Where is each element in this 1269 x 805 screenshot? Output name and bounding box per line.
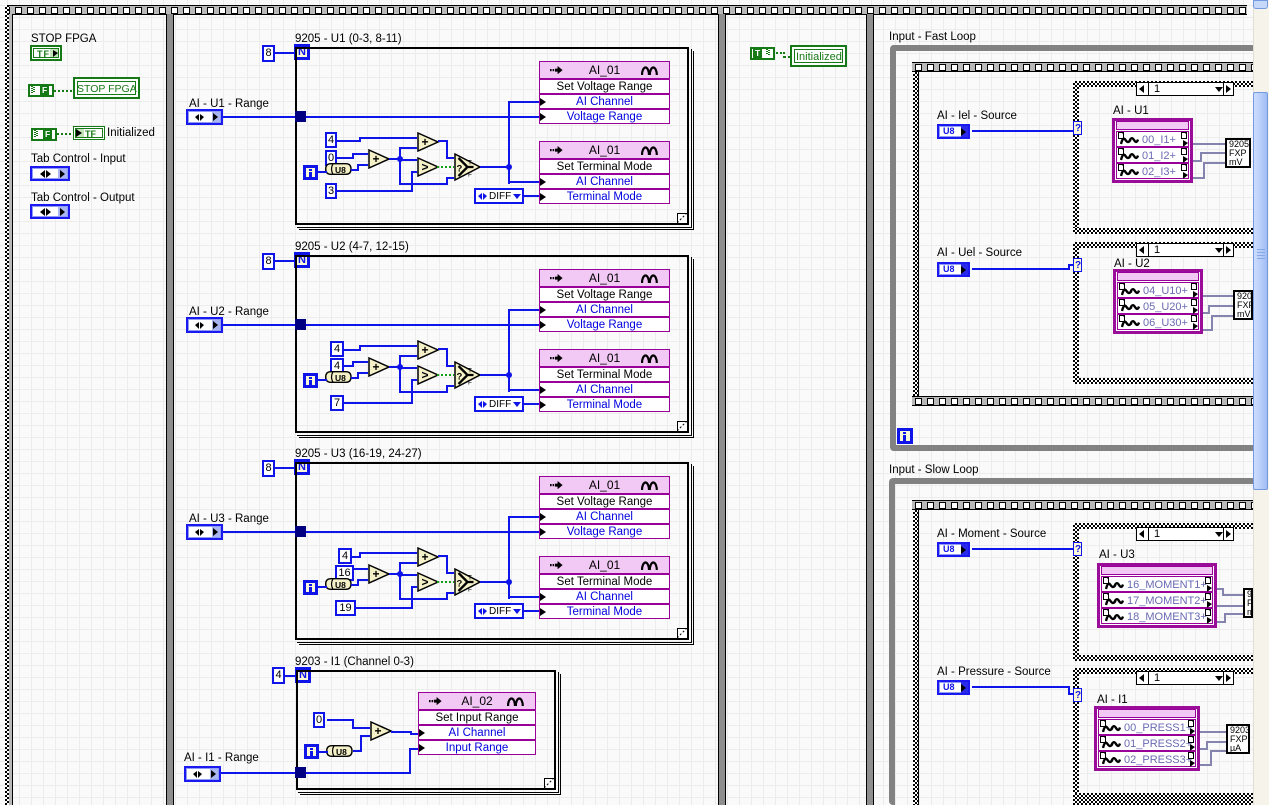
- constant 0: [325, 150, 337, 166]
- flat sequence left border (fast loop): [913, 72, 918, 396]
- wire const 4 to add2: [337, 140, 359, 142]
- add function 1: [368, 357, 391, 377]
- case structure (AI - U3): [1073, 523, 1253, 529]
- wire Moment to case selector: [972, 548, 1073, 550]
- wire junction to select false input: [399, 575, 401, 600]
- node 9205 FXP mV (U2): [1233, 290, 1253, 320]
- wire const 4 to add2: [344, 349, 359, 351]
- case structure (AI - U2): [1073, 242, 1253, 248]
- sequence divider 2: [718, 14, 726, 805]
- label AI - Iel - Source: [937, 110, 1017, 123]
- label AI - U2 - Range: [189, 306, 269, 319]
- For Loop count terminal N: [294, 252, 310, 268]
- loop count constant 8: [262, 45, 275, 62]
- constant 4: [330, 358, 344, 374]
- boolean constant F (2): [31, 128, 57, 141]
- outer flat sequence left inner gray band: [9, 14, 12, 805]
- To U8 conversion (9203): [326, 745, 353, 757]
- label AI - I1 - Range: [184, 752, 259, 765]
- constant 3: [325, 183, 337, 199]
- wire i to U8: [317, 379, 327, 381]
- label AI - Moment - Source: [937, 528, 1046, 541]
- wire to AI Channel 1: [508, 309, 539, 311]
- wire i to U8: [317, 171, 327, 173]
- enum constant DIFF: [474, 396, 524, 412]
- svg-text:+: +: [422, 135, 429, 149]
- label Tab Control - Input: [31, 153, 126, 166]
- For Loop frame 9203 - I1: [296, 670, 556, 790]
- greater function: [417, 365, 440, 385]
- outer flat sequence left border (checkered): [5, 5, 9, 805]
- boolean constant F (1): [28, 84, 54, 97]
- loop count constant 8: [262, 253, 275, 270]
- For Loop count terminal N (9203): [295, 667, 311, 683]
- wire row2 to 9203 node: [1200, 748, 1206, 750]
- wire range to tunnel (9203): [221, 772, 296, 774]
- wire i to U8 (9203): [319, 751, 328, 753]
- wire select output: [480, 374, 507, 376]
- label Initialized: [107, 127, 155, 140]
- add function 2: [417, 340, 440, 360]
- wire row1 to 9205 node: [1193, 143, 1225, 145]
- wire row1 to node (U3): [1217, 588, 1222, 590]
- case structure (AI - I1): [1073, 668, 1253, 674]
- constant 4: [330, 341, 344, 357]
- wire junction up: [399, 147, 417, 149]
- range control AI - U1 - Range: [186, 109, 223, 125]
- frame label 9205 - U1 (0-3, 8-11): [295, 33, 402, 46]
- svg-text:?: ?: [457, 372, 463, 383]
- invoke node AI_01 Set Voltage Range: [539, 269, 670, 287]
- wire const 19 to greater: [356, 607, 411, 609]
- svg-text:>: >: [422, 160, 429, 174]
- vertical scrollbar: [1253, 0, 1269, 805]
- wire row2 to 9205 node (U2): [1203, 312, 1208, 314]
- constant 0: [313, 712, 325, 728]
- wire tunnel to Input Range: [306, 772, 409, 774]
- svg-text:T: T: [468, 368, 472, 375]
- local variable TF (Initialized): [73, 126, 105, 140]
- case structure (AI - U1): [1073, 81, 1253, 87]
- tunnel: [295, 526, 306, 537]
- svg-text:F: F: [468, 172, 472, 179]
- wire U8 to add1: [351, 584, 357, 586]
- wire junction to add2: [399, 356, 401, 368]
- wire junction: [397, 571, 403, 577]
- Select function: [454, 153, 482, 181]
- boolean control STOP FPGA: [30, 45, 62, 61]
- svg-text:+: +: [373, 360, 380, 374]
- wire junction select output: [506, 372, 512, 378]
- wire DIFF to Terminal Mode: [523, 195, 539, 197]
- svg-text:+: +: [373, 152, 380, 166]
- svg-text:+: +: [422, 550, 429, 564]
- tunnel: [295, 111, 306, 122]
- boolean wire greater to select: [437, 374, 454, 376]
- label STOP FPGA: [31, 33, 96, 46]
- wire U8 to add: [353, 750, 360, 752]
- frame label 9205 - U3 (16-19, 24-27): [295, 448, 422, 461]
- flat sequence film strip bottom (fast loop): [912, 396, 1253, 406]
- wire i to U8: [317, 586, 327, 588]
- wire junction to greater: [401, 367, 417, 369]
- flat sequence film strip top (fast loop): [912, 62, 1253, 72]
- wire row1 to 9205 node (U2): [1203, 295, 1233, 297]
- wire junction to add2: [399, 563, 401, 575]
- control AI - Iel - Source: [937, 124, 970, 139]
- invoke node AI_01 Set Terminal Mode: [539, 556, 670, 574]
- svg-text:+: +: [375, 724, 382, 738]
- wire junction: [397, 364, 403, 370]
- wire select to AI Channel nodes: [508, 309, 510, 392]
- svg-text:+: +: [422, 343, 429, 357]
- wire junction: [397, 156, 403, 162]
- cluster AI - U1: [1112, 118, 1193, 183]
- wire 0 to add: [327, 719, 352, 721]
- loop count constant 4: [272, 667, 285, 684]
- wire junction to add2: [399, 148, 401, 160]
- frame label 9203 - I1: [295, 656, 414, 669]
- constant 4: [338, 548, 352, 564]
- dotted wire F to STOP FPGA local variable: [54, 90, 73, 92]
- svg-text:?: ?: [457, 164, 463, 175]
- wire tunnel to Voltage Range: [306, 324, 539, 326]
- wire junction to greater: [401, 159, 417, 161]
- wire tunnel to Voltage Range: [306, 116, 539, 118]
- svg-text:>: >: [422, 368, 429, 382]
- Select function: [454, 568, 482, 596]
- case selector 1 (U2): [1136, 243, 1234, 257]
- wire row3 to 9205 node (U2): [1203, 329, 1211, 331]
- flat sequence left border (slow loop): [913, 510, 918, 805]
- iteration terminal i (9203): [304, 744, 319, 759]
- case selector 1: [1136, 82, 1234, 96]
- while loop iteration terminal i (fast): [897, 428, 913, 444]
- constant 7: [330, 395, 344, 411]
- greater function: [417, 572, 440, 592]
- invoke node AI_01 Set Terminal Mode: [539, 349, 670, 367]
- label AI - U1 - Range: [189, 98, 269, 111]
- constant 16: [335, 565, 354, 581]
- wire const 16 to add1: [352, 572, 354, 574]
- iteration terminal i: [303, 373, 318, 388]
- wire row2 to node (U3): [1217, 605, 1243, 607]
- node 9205 FXP mV: [1225, 138, 1251, 168]
- cluster AI - U2: [1113, 269, 1203, 334]
- wire range control to tunnel: [223, 324, 295, 326]
- case selector terminal ? (U3): [1073, 542, 1082, 556]
- control AI - Moment - Source: [937, 542, 970, 557]
- For Loop frame 9205 - U3 (16-19, 24-27): [295, 462, 689, 640]
- tunnel: [295, 319, 306, 330]
- wire U8 to add1: [351, 169, 357, 171]
- wire add1 to junction: [389, 158, 401, 160]
- wire add1 to junction: [389, 366, 401, 368]
- wire const 4 to add2: [352, 556, 359, 558]
- flat sequence film strip top (slow loop): [912, 500, 1253, 510]
- wire junction select output: [506, 579, 512, 585]
- wire to select false: [399, 598, 446, 600]
- wire row3 to 9203 node: [1200, 764, 1210, 766]
- sequence divider 1: [166, 14, 174, 805]
- label Tab Control - Output: [31, 192, 135, 205]
- iteration terminal i: [303, 165, 318, 180]
- invoke node AI_02 Set Input Range: [418, 692, 536, 710]
- label AI - Pressure - Source: [937, 666, 1051, 679]
- wire add1 to junction: [389, 573, 401, 575]
- wire junction up: [399, 355, 417, 357]
- cluster AI - U3: [1097, 563, 1217, 628]
- wire junction select output: [506, 164, 512, 170]
- label AI - U1: [1113, 105, 1149, 118]
- sequence divider 3: [866, 14, 874, 805]
- boolean wire greater to select: [437, 581, 454, 583]
- wire DIFF to Terminal Mode: [523, 610, 539, 612]
- wire 4 to N: [285, 675, 297, 677]
- wire to AI Channel 1: [508, 516, 539, 518]
- wire DIFF to Terminal Mode: [523, 403, 539, 405]
- wire select output: [480, 166, 507, 168]
- wire const 4 to add1: [344, 365, 352, 367]
- wire select output: [480, 581, 507, 583]
- wire 8 to N: [275, 260, 296, 262]
- constant 4: [325, 132, 337, 148]
- label AI - U3 - Range: [189, 513, 269, 526]
- wire to select false: [399, 183, 446, 185]
- outer flat sequence top film-strip border: [6, 5, 1247, 15]
- wire to select false: [399, 391, 446, 393]
- boolean wire greater to select: [437, 166, 454, 168]
- wire to AI Channel 2: [508, 181, 539, 183]
- add function (9203): [370, 721, 393, 741]
- range control AI - I1 - Range: [184, 766, 221, 782]
- svg-text:>: >: [422, 575, 429, 589]
- case selector terminal ? (I1): [1073, 688, 1082, 702]
- invoke node AI_01 Set Voltage Range: [539, 61, 670, 79]
- wire junction to greater: [401, 574, 417, 576]
- label Input - Slow Loop: [889, 464, 979, 477]
- wire to AI Channel 1: [508, 101, 539, 103]
- For Loop frame 9205 - U2 (4-7, 12-15): [295, 255, 689, 433]
- case selector terminal ?: [1073, 121, 1082, 135]
- wire add2 to select: [438, 348, 446, 350]
- wire 8 to N: [275, 52, 296, 54]
- add function 2: [417, 547, 440, 567]
- wire to AI Channel 2: [508, 389, 539, 391]
- svg-text:F: F: [468, 587, 472, 594]
- enum control Tab Control - Input: [30, 166, 70, 181]
- Select function: [454, 361, 482, 389]
- To U8 conversion: [325, 163, 352, 175]
- label AI - I1: [1097, 694, 1128, 707]
- add function 2: [417, 132, 440, 152]
- tunnel (9203): [295, 767, 306, 778]
- wire U8 to add1: [351, 377, 357, 379]
- enum control Tab Control - Output: [30, 204, 70, 219]
- local variable STOP FPGA: [73, 77, 140, 99]
- wire const 3 to greater: [337, 190, 411, 192]
- wire row3 to 9205 node: [1193, 177, 1203, 179]
- label AI - Uel - Source: [937, 247, 1022, 260]
- To U8 conversion: [325, 371, 352, 383]
- wire Iel to case selector: [972, 130, 1073, 132]
- wire add2 to select: [438, 555, 446, 557]
- enum constant DIFF: [474, 603, 524, 619]
- invoke node AI_01 Set Voltage Range: [539, 476, 670, 494]
- loop count constant 8: [262, 460, 275, 477]
- wire junction to select false input: [399, 160, 401, 185]
- node 9203 FXP uA: [1226, 724, 1250, 754]
- while loop Input - Fast Loop: [890, 45, 1256, 451]
- wire const 7 to greater: [344, 402, 411, 404]
- range control AI - U3 - Range: [186, 524, 223, 540]
- For Loop count terminal N: [294, 459, 310, 475]
- while loop Input - Slow Loop: [889, 478, 1256, 805]
- To U8 conversion: [325, 578, 352, 590]
- wire row1 to 9203 node: [1200, 731, 1226, 733]
- wire range control to tunnel: [223, 116, 295, 118]
- label Input - Fast Loop: [889, 31, 976, 44]
- wire select to AI Channel nodes: [508, 516, 510, 599]
- local variable Initialized: [790, 45, 847, 67]
- wire add to AI Channel: [391, 731, 410, 733]
- svg-text:?: ?: [457, 579, 463, 590]
- add function 1: [368, 564, 391, 584]
- wire row3 to node (U3): [1217, 621, 1224, 623]
- For Loop count terminal N: [294, 44, 310, 60]
- greater function: [417, 157, 440, 177]
- cluster AI - I1: [1094, 706, 1200, 771]
- wire to AI Channel 2: [508, 596, 539, 598]
- dotted wire F to Initialized local variable: [57, 133, 73, 135]
- For Loop frame 9205 - U1 (0-3, 8-11): [295, 47, 689, 225]
- node 9205 FXP mV (U3, clipped): [1243, 588, 1253, 618]
- label AI - U2: [1114, 258, 1150, 271]
- wire const 0 to add1: [337, 157, 352, 159]
- svg-text:T: T: [468, 160, 472, 167]
- svg-text:T: T: [468, 575, 472, 582]
- invoke node AI_01 Set Terminal Mode: [539, 141, 670, 159]
- case selector 1 (I1): [1136, 671, 1234, 685]
- case selector terminal ? (U2): [1073, 258, 1082, 272]
- wire range control to tunnel: [223, 531, 295, 533]
- wire add2 to select: [438, 140, 446, 142]
- wire 8 to N: [275, 467, 296, 469]
- range control AI - U2 - Range: [186, 317, 223, 333]
- iteration terminal i: [303, 580, 318, 595]
- control AI - Uel - Source: [937, 262, 970, 277]
- svg-text:+: +: [373, 567, 380, 581]
- control AI - Pressure - Source: [937, 680, 970, 695]
- frame label 9205 - U2 (4-7, 12-15): [295, 241, 409, 254]
- label AI - U3: [1099, 549, 1135, 562]
- constant 19: [335, 600, 356, 616]
- wire Uel to case selector: [972, 268, 1068, 270]
- dotted wire T to Initialized variable: [776, 52, 784, 54]
- enum constant DIFF: [474, 188, 524, 204]
- wire select to AI Channel nodes: [508, 101, 510, 184]
- boolean constant T: [750, 47, 775, 60]
- case selector 1 (U3): [1136, 527, 1234, 541]
- wire tunnel to Voltage Range: [306, 531, 539, 533]
- wire junction to select false input: [399, 368, 401, 393]
- add function 1: [368, 149, 391, 169]
- wire Pressure to case selector: [972, 686, 1068, 688]
- svg-text:F: F: [468, 380, 472, 387]
- wire junction up: [399, 562, 417, 564]
- wire row2 to 9205 node: [1193, 160, 1200, 162]
